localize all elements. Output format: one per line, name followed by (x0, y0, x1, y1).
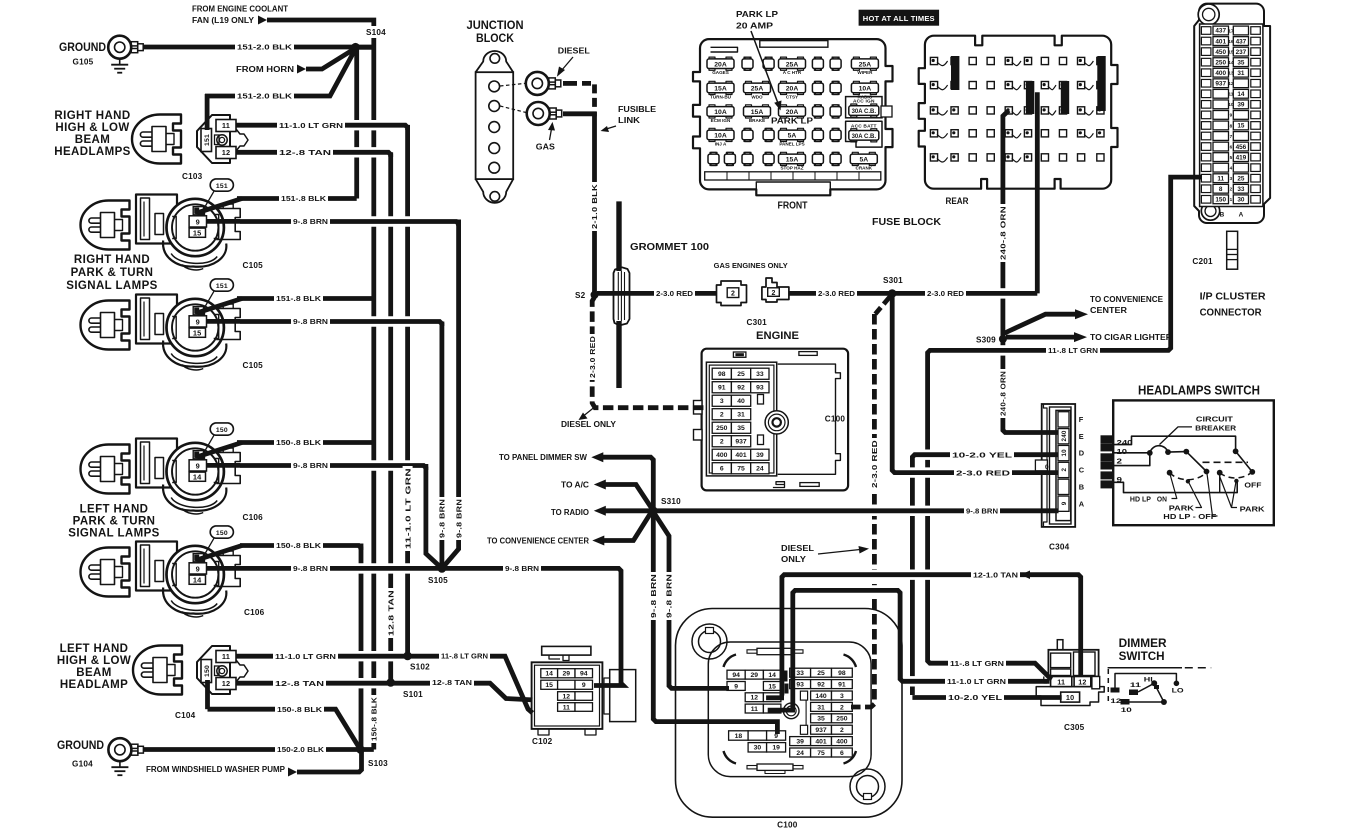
switch circuit breaker arc (1150, 446, 1168, 453)
lamp LH park & turn #2 (C106) (81, 548, 130, 597)
svg-text:29: 29 (563, 671, 571, 678)
svg-text:GROMMET 100: GROMMET 100 (630, 242, 709, 253)
svg-text:DIMMER: DIMMER (1119, 638, 1168, 650)
wire: 9-.8 BRN S310 down to I/P upper pin 9 (653, 512, 669, 572)
splice S310 (649, 507, 658, 516)
svg-text:S2: S2 (575, 291, 586, 300)
svg-text:S102: S102 (410, 663, 430, 672)
svg-text:456: 456 (1236, 144, 1247, 151)
wire: S310 arrow TO A/C (605, 485, 653, 511)
svg-text:75: 75 (817, 750, 825, 757)
label 12-.8 TAN (C103) (277, 147, 333, 157)
splice S105 (438, 564, 447, 573)
splice S309 (999, 335, 1007, 343)
svg-text:2-3.0 RED: 2-3.0 RED (956, 468, 1011, 477)
wire trunk E: 9-.8 BRN from RH park lamp 1 to S105 (442, 220, 459, 569)
wire: 11-.8 LT GRN C201 pin 11 to S309 area down to C305 pin 11 (995, 345, 1011, 355)
wire trunk A: ground 151/150 trunk from coolant-fan corner to S103 (267, 20, 374, 750)
svg-text:39: 39 (756, 452, 764, 459)
I/P upper-left pin grid (727, 670, 745, 679)
label 150-.8 BLK (C104) (275, 704, 324, 714)
svg-text:2-3.0 RED: 2-3.0 RED (588, 336, 597, 378)
svg-text:2-3.0 RED: 2-3.0 RED (870, 440, 879, 488)
svg-text:419: 419 (1236, 154, 1247, 161)
svg-text:17: 17 (1228, 28, 1234, 33)
svg-text:437: 437 (1215, 28, 1226, 35)
svg-text:20A: 20A (786, 86, 799, 93)
svg-text:2: 2 (840, 727, 844, 734)
I/P lower-left pin grid (729, 731, 749, 740)
front fuses row5 (708, 154, 719, 164)
svg-text:C106: C106 (243, 513, 264, 522)
svg-text:2: 2 (731, 291, 735, 298)
svg-text:0: 0 (1045, 464, 1049, 471)
svg-text:93: 93 (756, 385, 764, 392)
svg-text:3: 3 (840, 693, 844, 700)
svg-text:11: 11 (222, 121, 230, 130)
label 151-.8 BLK (lamp2) (274, 294, 323, 304)
wire: 240-.8 ORN rear fuse block through S309 to C304 pin E (1003, 110, 1059, 432)
switch 2 wire (1114, 453, 1150, 466)
svg-text:C102: C102 (532, 737, 553, 746)
svg-text:40: 40 (737, 398, 745, 405)
label 11-1.0 LT GRN (C305) (945, 676, 1008, 686)
svg-text:B: B (1220, 212, 1225, 219)
svg-text:2: 2 (840, 704, 844, 711)
svg-text:35: 35 (817, 716, 825, 723)
lamp RH park & turn #1 (C105) (81, 201, 130, 250)
svg-text:30: 30 (1237, 197, 1245, 204)
svg-text:GAGES: GAGES (712, 70, 729, 75)
svg-text:15: 15 (545, 682, 553, 689)
svg-text:151: 151 (216, 183, 228, 190)
svg-text:20A: 20A (714, 61, 727, 68)
label 10-2.0 YEL (C304 D) (950, 450, 1014, 460)
svg-text:C304: C304 (1049, 543, 1070, 552)
svg-text:3: 3 (720, 398, 724, 405)
label 9-.8 BRN (S105 out) (503, 563, 541, 573)
svg-text:91: 91 (718, 385, 726, 392)
wire: junction block gas feed / fusible link 2-1.0 BLK down to S2 (592, 112, 597, 295)
lamp LH park & turn #1 (C106) (81, 445, 130, 494)
label 9-.8 BRN (lamp1) (291, 217, 330, 227)
svg-text:15: 15 (1228, 49, 1234, 54)
label 11-.8 LT GRN (S102 out) (439, 651, 490, 661)
wire: 150-.8 BLK from LH park lamp 2 down to S103 (359, 544, 364, 750)
svg-text:TO CONVENIENCE CENTER: TO CONVENIENCE CENTER (487, 537, 589, 546)
svg-text:12.8 TAN: 12.8 TAN (386, 590, 395, 636)
wire: S104 stub to trunk A (355, 45, 374, 50)
wire: C104 150-.8 BLK to S103 (205, 680, 210, 709)
I/P mounting ear top-left (692, 624, 727, 659)
ring terminal DIESEL (526, 72, 549, 95)
label 151-.8 BLK (lamp1) (279, 194, 328, 204)
label 2-3.0 RED dashed vertical (869, 438, 879, 490)
svg-text:12: 12 (1110, 698, 1121, 705)
switch contact to wiper arm (1168, 451, 1186, 454)
svg-text:RIGHT HAND: RIGHT HAND (54, 110, 130, 122)
svg-text:30A C.B.: 30A C.B. (852, 109, 877, 115)
svg-text:10: 10 (1121, 707, 1132, 714)
C305 pin 12 (1074, 677, 1091, 687)
svg-text:35: 35 (737, 425, 745, 432)
wire: 9-.8 BRN S310 to C304 pin A (866, 506, 882, 516)
ground G104 (108, 738, 131, 761)
svg-text:FROM ENGINE COOLANT: FROM ENGINE COOLANT (192, 5, 288, 14)
svg-text:S310: S310 (661, 497, 681, 506)
svg-text:2: 2 (771, 290, 775, 297)
svg-text:5A: 5A (788, 133, 797, 140)
svg-text:2: 2 (1117, 456, 1123, 465)
front fuses row3 (707, 107, 734, 117)
label 10-2.0 YEL (C305) (946, 693, 1004, 703)
svg-text:15A: 15A (786, 157, 799, 164)
svg-text:10: 10 (1228, 102, 1234, 107)
svg-text:31: 31 (817, 704, 825, 711)
svg-text:937: 937 (735, 439, 747, 446)
svg-text:PARK LP: PARK LP (771, 117, 813, 126)
svg-text:150: 150 (216, 530, 228, 537)
wire: 9-.8 BRN S310 down to I/P lower pin 9 (651, 511, 656, 572)
wire: 151-2.0 BLK branch to C103 pin 151 (205, 94, 210, 130)
switch left wafer arc (1170, 473, 1204, 480)
svg-text:20 AMP: 20 AMP (736, 21, 773, 31)
splice S102 (403, 652, 412, 661)
wire: 2-3.0 RED solid from S301 down to C304 pin C (904, 467, 936, 477)
svg-text:12: 12 (1228, 81, 1234, 86)
svg-text:25A: 25A (786, 61, 799, 68)
switch 240 wire (1114, 436, 1236, 450)
svg-text:14: 14 (545, 671, 553, 678)
svg-text:2: 2 (720, 439, 724, 446)
svg-text:11-1.0 LT GRN: 11-1.0 LT GRN (403, 468, 412, 549)
svg-text:240-.8 ORN: 240-.8 ORN (999, 371, 1008, 416)
svg-text:BREAKER: BREAKER (1195, 423, 1237, 432)
switch right wafer (1233, 448, 1239, 454)
svg-text:1: 1 (1230, 197, 1233, 202)
svg-text:C105: C105 (243, 361, 264, 370)
svg-text:10: 10 (1061, 449, 1068, 457)
wire: diesel feed dashed into fusible link (563, 81, 577, 86)
svg-text:HOT AT ALL TIMES: HOT AT ALL TIMES (863, 14, 935, 23)
svg-text:9: 9 (196, 461, 200, 470)
svg-text:9: 9 (196, 217, 200, 226)
svg-text:11: 11 (222, 652, 230, 661)
svg-text:REAR: REAR (946, 196, 969, 206)
label 151-2.0 BLK (branch) (235, 91, 294, 101)
connector C104 (197, 646, 230, 694)
svg-text:11-1.0 LT GRN: 11-1.0 LT GRN (947, 677, 1006, 686)
svg-text:HEADLAMP: HEADLAMP (60, 679, 128, 691)
svg-text:150: 150 (204, 665, 211, 677)
svg-text:A: A (1079, 499, 1085, 508)
label 2-3.0 RED (C301 to S301) (816, 288, 857, 298)
svg-text:98: 98 (718, 371, 726, 378)
wire: S104 stub to trunk A (355, 45, 374, 50)
wire: C104 11-1.0 LT GRN to S102 and on to C102 pin 11 (353, 651, 398, 661)
svg-text:11-1.0 LT GRN: 11-1.0 LT GRN (275, 652, 336, 661)
svg-text:9-.8 BRN: 9-.8 BRN (293, 564, 328, 573)
wire: C103 12-.8 TAN to trunk B (348, 147, 382, 157)
svg-text:10: 10 (1066, 693, 1074, 702)
svg-text:6: 6 (720, 466, 724, 473)
svg-text:HEADLAMPS: HEADLAMPS (54, 146, 130, 158)
svg-text:9-.8 BRN: 9-.8 BRN (438, 499, 447, 538)
svg-text:LO: LO (1172, 688, 1184, 695)
svg-text:6: 6 (840, 750, 844, 757)
svg-text:FUSE BLOCK: FUSE BLOCK (872, 216, 941, 228)
label 9-.8 BRN (to C304 A) (964, 506, 1000, 516)
svg-text:LINK: LINK (618, 116, 640, 125)
wire: RH park lamp1 151-.8 BLK to S104 drop (237, 196, 357, 201)
svg-text:C301: C301 (747, 318, 768, 327)
svg-text:25: 25 (817, 670, 825, 677)
switch 10 wire (1114, 452, 1150, 454)
svg-text:9-.8 BRN: 9-.8 BRN (665, 574, 674, 618)
label 11-.8 LT GRN (S309 area) (1046, 345, 1100, 355)
svg-text:14: 14 (193, 576, 202, 585)
svg-text:11: 11 (751, 706, 758, 713)
C305 pin 11 (1051, 677, 1072, 687)
label 2-3.0 RED (C304 C) (954, 468, 1012, 478)
svg-text:SIGNAL LAMPS: SIGNAL LAMPS (66, 280, 157, 292)
svg-text:CENTER: CENTER (1090, 306, 1127, 315)
svg-text:C104: C104 (175, 711, 196, 720)
LH headlamp bulb (133, 646, 182, 695)
svg-text:15: 15 (768, 683, 776, 690)
svg-text:14: 14 (1237, 91, 1245, 98)
svg-text:C: C (1079, 466, 1085, 475)
wire: RH park lamp2 9-.8 BRN to trunk D (366, 316, 415, 326)
svg-text:HIGH & LOW: HIGH & LOW (55, 122, 129, 134)
wire: 151 feed from S104 down to RH park lamp (354, 45, 359, 199)
wire: from horn to S104 (306, 49, 355, 70)
I/P mounting ear bottom-right (850, 769, 885, 804)
svg-text:12: 12 (222, 148, 231, 157)
svg-text:437: 437 (1236, 38, 1247, 45)
label 2-3.0 RED (S2 to C301) (654, 288, 695, 298)
svg-text:11: 11 (1228, 92, 1233, 97)
label 12-.8 TAN (S101 out) (430, 678, 474, 688)
svg-text:93: 93 (796, 682, 804, 689)
connector C103 (197, 115, 230, 163)
svg-text:250: 250 (716, 425, 728, 432)
splice S2 (591, 291, 599, 299)
svg-text:BEAM: BEAM (75, 134, 110, 146)
svg-text:9: 9 (196, 564, 200, 573)
svg-text:31: 31 (1237, 70, 1245, 77)
svg-text:RADIO: RADIO (857, 94, 872, 99)
svg-text:5: 5 (1230, 155, 1233, 160)
label 11-1.0 LT GRN (C104) (273, 651, 338, 661)
svg-text:GROUND: GROUND (59, 42, 106, 54)
svg-text:11: 11 (563, 704, 570, 711)
svg-text:WIPER: WIPER (857, 70, 873, 75)
svg-text:11: 11 (1130, 682, 1142, 689)
svg-text:937: 937 (815, 727, 827, 734)
svg-text:250: 250 (836, 716, 848, 723)
svg-text:LEFT HAND: LEFT HAND (60, 643, 129, 655)
svg-text:150-.8 BLK: 150-.8 BLK (370, 697, 379, 741)
svg-text:S309: S309 (976, 336, 996, 345)
label 2-3.0 RED vertical (S2 below) (587, 334, 597, 380)
svg-text:12-.8 TAN: 12-.8 TAN (432, 678, 472, 687)
svg-text:19: 19 (772, 745, 780, 752)
svg-text:20A: 20A (786, 109, 799, 116)
label 2-3.0 RED (S301 right) (925, 288, 966, 298)
svg-text:12: 12 (563, 693, 571, 700)
svg-text:C305: C305 (1064, 723, 1085, 732)
svg-text:F: F (1079, 415, 1084, 424)
vertical trunk labels (403, 466, 413, 551)
wire: S310 arrow TO CONVENIENCE CENTER (604, 513, 651, 540)
svg-text:33: 33 (756, 371, 764, 378)
splice S101 (386, 678, 395, 687)
svg-text:G105: G105 (73, 58, 94, 67)
svg-text:151-.8 BLK: 151-.8 BLK (281, 194, 327, 203)
svg-text:G104: G104 (72, 760, 93, 769)
svg-text:75: 75 (737, 466, 745, 473)
wire: S309 arrow to convenience center (1003, 314, 1076, 334)
svg-text:3: 3 (1230, 176, 1233, 181)
svg-text:C105: C105 (243, 261, 264, 270)
svg-text:TO PANEL DIMMER SW: TO PANEL DIMMER SW (499, 453, 588, 462)
svg-text:10: 10 (1117, 447, 1128, 456)
front fuses row2 (707, 83, 734, 93)
svg-text:2-3.0 RED: 2-3.0 RED (656, 289, 694, 298)
wire: S309 arrow to cigar lighter (1006, 335, 1075, 340)
svg-text:11-1.0 LT GRN: 11-1.0 LT GRN (279, 121, 343, 130)
svg-text:4: 4 (1230, 165, 1233, 170)
svg-text:PARK & TURN: PARK & TURN (73, 516, 156, 528)
svg-text:6: 6 (1230, 144, 1233, 149)
svg-text:240: 240 (1117, 438, 1133, 447)
svg-text:HD LP: HD LP (1130, 495, 1151, 504)
svg-text:240: 240 (1061, 430, 1068, 441)
svg-text:C106: C106 (244, 608, 265, 617)
svg-text:9: 9 (582, 682, 586, 689)
svg-text:10A: 10A (859, 86, 872, 93)
svg-text:TO A/C: TO A/C (561, 481, 589, 490)
svg-text:HD LP - OFF: HD LP - OFF (1163, 512, 1217, 521)
svg-text:B: B (1079, 482, 1085, 491)
svg-text:ON: ON (1157, 495, 1167, 504)
rear block jumper bars (951, 56, 959, 90)
label S104 (364, 26, 388, 38)
svg-text:SIGNAL LAMPS: SIGNAL LAMPS (68, 528, 159, 540)
svg-text:29: 29 (751, 672, 759, 679)
svg-text:9-.8 BRN: 9-.8 BRN (505, 564, 539, 573)
wire: RH park lamp1 9-.8 BRN to trunk E (366, 216, 415, 226)
svg-text:2: 2 (1230, 187, 1233, 192)
connector C305 (1057, 640, 1063, 651)
svg-text:C201: C201 (1192, 257, 1213, 266)
wire: S310 arrow TO PANEL DIMMER SW (603, 457, 653, 511)
svg-text:CTSY: CTSY (786, 94, 798, 99)
svg-text:S101: S101 (403, 690, 423, 699)
wire: 2-3.0 RED in rear fuse block down to S301 level (1035, 92, 1040, 293)
svg-text:15: 15 (193, 229, 202, 238)
front fuses row1 (707, 59, 734, 69)
label 9-.8 BRN (lamp2) (291, 317, 330, 327)
svg-text:12-.8 TAN: 12-.8 TAN (279, 148, 331, 157)
svg-text:400: 400 (1215, 70, 1226, 77)
fuse block REAR view (919, 36, 1118, 189)
rear fuse terminal grid (930, 57, 937, 64)
circuit breaker ACC BATT (846, 121, 882, 147)
svg-text:92: 92 (737, 385, 745, 392)
label 150-2.0 BLK (G104) (275, 745, 326, 755)
svg-text:BEAM: BEAM (76, 667, 111, 679)
svg-text:33: 33 (796, 670, 804, 677)
svg-text:S104: S104 (366, 28, 386, 37)
C304 side latch (1035, 460, 1047, 471)
svg-text:TO CIGAR LIGHTER: TO CIGAR LIGHTER (1090, 333, 1172, 342)
I/P right pin grid (790, 668, 811, 677)
svg-text:DIESEL: DIESEL (558, 47, 590, 56)
wire: 11-1.0 LT GRN I/P pin 11 up over to C305 pin 11 (866, 585, 882, 595)
svg-text:401: 401 (735, 452, 747, 459)
wire: 2-3.0 RED dashed (diesel only) S2 to engine connector (592, 297, 704, 408)
svg-text:401: 401 (815, 739, 827, 746)
svg-text:11: 11 (1217, 175, 1224, 182)
svg-text:25: 25 (737, 371, 745, 378)
svg-text:15: 15 (1237, 123, 1245, 130)
svg-text:39: 39 (796, 739, 804, 746)
wire: from windshield washer pump to S103 (297, 750, 362, 773)
svg-text:151: 151 (216, 283, 228, 290)
connector C304 (1042, 404, 1076, 527)
switch terminal pads (1101, 435, 1115, 443)
svg-text:237: 237 (1236, 49, 1247, 56)
svg-text:GAS ENGINES ONLY: GAS ENGINES ONLY (714, 261, 788, 270)
svg-text:151-2.0 BLK: 151-2.0 BLK (237, 43, 293, 52)
svg-text:15A: 15A (714, 86, 727, 93)
svg-text:9: 9 (734, 683, 738, 690)
svg-text:18: 18 (735, 733, 743, 740)
svg-text:C100: C100 (777, 821, 798, 830)
connector C102 (542, 646, 591, 655)
wire: LH park lamp1 150-.8 BLK to trunk A (237, 440, 374, 445)
connector C201 (I/P cluster) (1194, 4, 1270, 223)
svg-text:12-1.0 TAN: 12-1.0 TAN (973, 570, 1018, 579)
wire trunk B: 12-.8 TAN from C103 to S101 (388, 152, 393, 682)
wire: I/P pin 11 entry (768, 708, 795, 713)
svg-text:150: 150 (216, 427, 228, 434)
svg-text:401: 401 (1215, 38, 1226, 45)
svg-text:JUNCTION: JUNCTION (467, 20, 524, 32)
label 11-.8 LT GRN (C305) (948, 658, 1006, 668)
svg-text:9-.8 BRN: 9-.8 BRN (649, 574, 658, 618)
svg-text:25A: 25A (859, 61, 872, 68)
wire: LH park lamp1 9-.8 BRN (366, 460, 415, 470)
svg-text:10A: 10A (714, 133, 727, 140)
svg-text:DIESEL ONLY: DIESEL ONLY (561, 420, 617, 429)
svg-text:PARK LP: PARK LP (736, 9, 778, 19)
svg-text:FAN (L19 ONLY: FAN (L19 ONLY (192, 16, 255, 25)
svg-text:DIESEL: DIESEL (781, 544, 814, 553)
splice S301 (888, 289, 897, 298)
labels 9-.8 BRN vertical pair (S310 downs) (648, 572, 658, 620)
svg-text:10-2.0 YEL: 10-2.0 YEL (952, 450, 1013, 459)
wire: 9-.8 BRN from LH park lamp 1 down to S105 (426, 464, 442, 568)
svg-text:400: 400 (716, 452, 728, 459)
label 11-1.0 LT GRN (C103) (277, 120, 345, 130)
svg-text:HIGH & LOW: HIGH & LOW (57, 655, 131, 667)
wire: I/P pin 12 entry (766, 695, 784, 700)
junction block dashed leads to ring terminals (500, 83, 525, 86)
svg-text:S105: S105 (428, 576, 448, 585)
